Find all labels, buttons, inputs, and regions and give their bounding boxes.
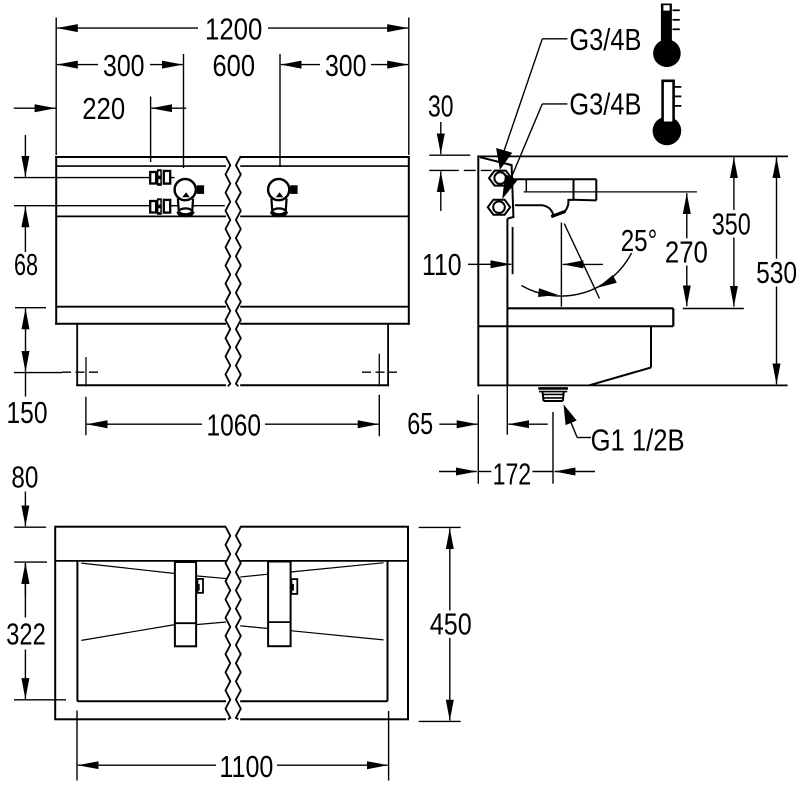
dimension 150 — [25, 309, 27, 341]
water jet 25 deg line — [564, 224, 599, 299]
dimension 300 left extension — [183, 54, 185, 168]
spout outlet face — [551, 211, 565, 216]
basin underside slant — [589, 368, 651, 386]
side view: floor/bottom line — [478, 384, 787, 386]
svg-text:270: 270 — [665, 236, 708, 270]
dimension 172 extension lines — [477, 395, 479, 484]
basin interior bottom — [507, 307, 673, 309]
plan view: back ledge line — [55, 560, 408, 562]
dimension 68 — [24, 135, 26, 177]
break line right (plan view) — [236, 527, 241, 720]
dimension 300 right extension — [279, 54, 281, 167]
hex nut upper (hot inlet) — [489, 171, 511, 186]
spout flange line — [525, 179, 527, 192]
spout end cap — [573, 179, 575, 200]
thermometer hot icon — [661, 4, 672, 46]
thermometer cold icon — [674, 86, 681, 88]
plan view: outer rectangle — [55, 527, 408, 720]
dimension 1060 — [87, 423, 202, 425]
svg-text:25°: 25° — [621, 224, 658, 258]
plan view: tap 1 handle — [197, 579, 203, 593]
svg-text:30: 30 — [428, 90, 454, 124]
svg-text:450: 450 — [430, 608, 472, 642]
spout underside — [515, 205, 553, 214]
water jet plumb line — [560, 223, 562, 307]
dimension 300 left — [57, 64, 98, 66]
basin inner back line (110 ref) — [512, 227, 514, 274]
basin front lip — [672, 308, 674, 326]
25 deg arc — [521, 253, 631, 296]
fixing hole mark right — [362, 371, 397, 373]
leader to cold inlet — [542, 103, 567, 105]
svg-text:322: 322 — [6, 618, 45, 652]
side view: wall line — [477, 156, 479, 385]
front view: splash back bottom line — [56, 215, 409, 217]
svg-text:600: 600 — [213, 49, 256, 83]
plan view: bowl left edge — [76, 561, 78, 701]
front view: skirt right edge — [387, 324, 389, 386]
front view: trough top edge — [56, 156, 409, 158]
supply pipe line cold — [14, 205, 150, 207]
front view: left edge — [55, 157, 57, 324]
drain flange — [538, 387, 568, 390]
leader to hot inlet — [542, 38, 567, 40]
svg-text:530: 530 — [756, 256, 797, 290]
dimension 172 — [439, 471, 477, 473]
svg-text:65: 65 — [407, 407, 433, 441]
basin front face — [650, 326, 652, 367]
break masking (plan view) — [226, 521, 240, 724]
dimension 1060 extension lines — [85, 397, 87, 435]
pipe union fitting lower — [150, 201, 156, 213]
dimension 450 — [449, 528, 451, 610]
side view: basin back wall — [506, 219, 508, 386]
dimension 300 right — [281, 64, 320, 66]
plan view: tap 2 handle — [291, 579, 297, 594]
break line left (plan view) — [226, 527, 231, 720]
svg-text:80: 80 — [11, 461, 38, 495]
svg-text:G3/4B: G3/4B — [569, 88, 641, 122]
hex nut lower (cold inlet) — [488, 200, 510, 215]
plan view: bowl right edge — [387, 561, 389, 701]
tap 2 front symbol — [268, 179, 289, 200]
arc arrow right — [597, 275, 616, 288]
tap 1 front symbol — [175, 179, 196, 200]
front view: right edge — [408, 157, 410, 324]
svg-text:350: 350 — [712, 207, 751, 241]
plan view: bowl front edge — [77, 700, 387, 702]
front view: body bottom line — [56, 306, 409, 308]
front view: skirt bottom edge — [77, 384, 388, 386]
drain tailpiece G1 1/2B — [543, 392, 544, 401]
svg-text:172: 172 — [493, 457, 532, 491]
fixing hole mark left — [62, 371, 101, 373]
supply pipe line hot — [14, 177, 150, 179]
svg-text:1060: 1060 — [207, 409, 262, 443]
svg-text:150: 150 — [7, 396, 48, 430]
svg-text:1100: 1100 — [219, 750, 273, 784]
dimension 220 — [14, 107, 56, 109]
break masking (front view) — [226, 151, 240, 391]
basin back wall extension — [506, 385, 508, 434]
dimension 1100 — [78, 764, 216, 766]
svg-text:300: 300 — [103, 49, 145, 83]
dimension 1100 extension lines — [76, 711, 78, 781]
leader to drain — [571, 423, 577, 438]
break line right (front view) — [236, 156, 241, 386]
plan view: tap 1 body — [175, 562, 196, 646]
dimension 150 ticks — [15, 307, 46, 309]
spout top line — [515, 178, 596, 180]
spout reference line (350) — [524, 191, 697, 193]
basin rim band bottom — [478, 325, 673, 327]
dimension 220 extension — [150, 97, 152, 163]
side view: mounting bracket — [480, 157, 514, 218]
dimension 450 ticks — [419, 526, 461, 528]
svg-text:G1 1/2B: G1 1/2B — [591, 424, 685, 458]
front view: rim bottom edge — [56, 323, 409, 325]
svg-text:300: 300 — [325, 49, 367, 83]
plan view: bowl crease lines — [81, 563, 174, 573]
pipe union fitting upper — [150, 172, 156, 184]
side view: top line — [478, 155, 788, 157]
dimension 270 — [686, 193, 688, 238]
front view: skirt left edge — [76, 324, 78, 386]
dimension 350 — [733, 157, 735, 210]
svg-text:68: 68 — [14, 248, 38, 282]
dimension 530 — [776, 157, 778, 258]
svg-text:220: 220 — [82, 92, 125, 126]
plan view: tap 2 body — [268, 562, 291, 647]
break line left (front view) — [226, 156, 231, 386]
arc arrow left — [538, 288, 558, 297]
svg-text:1200: 1200 — [205, 12, 263, 46]
front view: top rim inner line — [56, 165, 409, 167]
dashed reference line (30) — [429, 169, 491, 171]
dimension 1200 extension lines — [55, 18, 57, 156]
dimension 1200 — [57, 27, 198, 29]
svg-text:110: 110 — [422, 248, 462, 282]
dimension 322 — [24, 563, 26, 617]
extension line for 270/350 — [683, 308, 744, 310]
svg-text:G3/4B: G3/4B — [569, 23, 641, 57]
